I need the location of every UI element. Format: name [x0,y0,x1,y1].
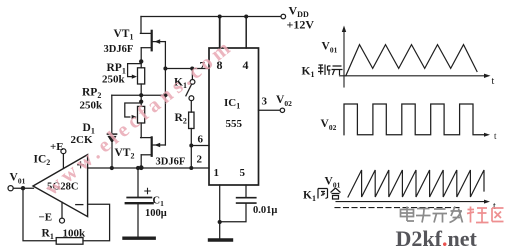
wire pin6 [191,145,209,147]
svg-text:250k: 250k [102,74,126,86]
terminal VDD [281,14,286,19]
svg-text:IC2: IC2 [34,154,51,168]
svg-text:+12V: +12V [287,18,315,32]
wire pin8 stub [219,17,221,49]
waveform V01 triangle axes [340,30,487,87]
svg-text:0.01μ: 0.01μ [253,205,277,216]
resistor R1 with feedback loop [23,188,110,244]
waveform V02 square wave [344,104,484,135]
wire VT1 source down to node [164,42,166,95]
wire pin4 stub [245,17,247,49]
svg-text:R2: R2 [175,112,187,126]
node junction rail to pin8 [218,15,222,19]
node D1 bottom [110,166,114,170]
wire VT2 drain up to node [164,95,166,145]
node at VT1/VT2 common [163,93,168,98]
logo dianzi kaifa shequ glyphs [401,207,463,223]
svg-text:V02: V02 [276,94,292,108]
svg-text:V01: V01 [325,176,341,190]
terminal V02 [280,108,284,112]
svg-text:t: t [492,76,495,87]
waveform V01 triangle wave K1 open [346,45,477,76]
node junction rail to pin4 [244,15,248,19]
wire V01 to op-amp output [13,187,33,189]
waveform V01 sawtooth wave K1 closed [348,170,484,197]
node C1 top [136,166,140,170]
svg-text:5: 5 [240,167,246,179]
capacitor 0.01u [220,185,256,222]
node RP2 top [139,100,143,104]
svg-text:V01: V01 [322,41,338,55]
svg-text:555: 555 [226,118,243,130]
node pin7 tap on VT1 source [163,67,167,71]
node pin1 / 0.01u [218,220,222,224]
svg-text:VT1: VT1 [114,28,134,42]
wire gate bus y95 [112,94,166,96]
node VT1 gate / RP1 top [139,59,143,63]
node K1 tap [190,67,194,71]
wire main bus to pin2 [88,167,209,169]
svg-text:t: t [493,201,496,212]
wire pin1 to ground [219,185,221,238]
svg-text:IC1: IC1 [224,97,240,111]
transistor VT1 [140,17,165,62]
capacitor C1 [126,168,153,236]
wire top supply rail [141,16,281,18]
node R2 chain to main wire [189,166,193,170]
transistor VT2 [141,137,166,168]
wire pin7 [165,68,209,70]
potentiometer RP1 [128,61,145,95]
svg-text:V02: V02 [321,118,337,132]
svg-text:C1: C1 [153,196,165,209]
svg-text:t: t [494,131,497,141]
svg-text:R1: R1 [42,228,54,242]
waveform sawtooth axis [336,201,486,203]
svg-text:1: 1 [214,167,220,179]
ground under C1 [124,236,154,239]
svg-text:3DJ6F: 3DJ6F [104,44,134,55]
svg-text:+E: +E [50,141,64,153]
svg-text:−E: −E [39,212,53,224]
diode D1 [107,95,116,168]
waveform sawtooth dashed baseline [335,207,462,209]
wire pin3 to V02 [259,109,281,111]
switch K1 [186,69,195,101]
node VT2 source [139,165,144,170]
node V01 feedback tap [21,186,25,190]
svg-text:3DJ6F: 3DJ6F [156,157,186,168]
svg-text:2: 2 [197,154,203,166]
label bihe (K1 closed) glyphs [318,188,341,199]
svg-text:100k: 100k [63,228,87,240]
op-amp IC1 555 box [209,48,259,185]
svg-text:3: 3 [262,96,268,108]
terminal V01 [8,186,13,191]
label duankai (K1 open) glyphs [318,65,343,76]
terminal -E [60,202,65,223]
svg-text:RP2: RP2 [82,87,101,101]
svg-text:V01: V01 [10,172,26,186]
svg-text:K1: K1 [303,190,316,204]
svg-text:6: 6 [198,134,204,146]
terminal +E [61,149,66,169]
node RP1 bottom / gate wire [139,93,143,97]
ground under pin1 [210,238,232,241]
svg-text:D2kf.net: D2kf.net [396,226,478,249]
svg-text:250k: 250k [80,100,104,112]
svg-text:4: 4 [243,58,249,72]
op-amp IC2 [33,155,88,217]
resistor R2 [189,101,194,168]
node R2 to pin6 [189,144,193,148]
svg-text:100μ: 100μ [145,208,167,219]
svg-text:K1: K1 [302,66,315,80]
potentiometer RP2 [125,95,145,137]
